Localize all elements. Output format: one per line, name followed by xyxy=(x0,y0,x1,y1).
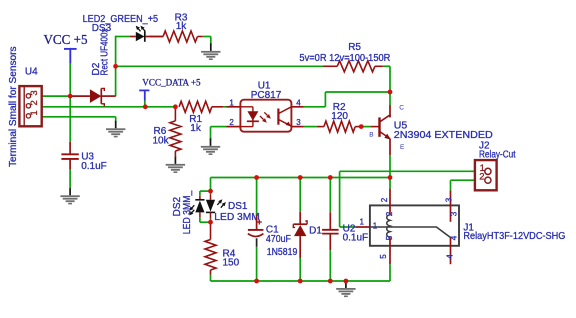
junction node U2 top xyxy=(328,175,333,180)
svg-text:LED 3MM_: LED 3MM_ xyxy=(182,190,193,234)
junction node R2 base xyxy=(359,124,364,129)
svg-text:5: 5 xyxy=(385,235,394,240)
wire rail corner to LED pair xyxy=(210,178,212,192)
optocoupler U1 PC817 xyxy=(227,100,304,132)
svg-text:2: 2 xyxy=(385,211,394,216)
wire row B: U4 pin2 to R1 xyxy=(42,106,177,108)
junction node rail ground xyxy=(344,279,349,284)
wire J2 pin2 to relay pin3 xyxy=(451,179,475,181)
svg-text:4: 4 xyxy=(296,99,301,108)
svg-text:4: 4 xyxy=(445,254,454,259)
wire D1 top xyxy=(299,178,301,212)
svg-text:VCC_DATA +5: VCC_DATA +5 xyxy=(142,77,200,88)
wire U4 pin3 to VCC node xyxy=(42,95,70,97)
svg-text:PC817: PC817 xyxy=(251,90,282,101)
resistor R4 xyxy=(205,222,216,274)
resistor R1 xyxy=(179,101,223,112)
svg-text:D1: D1 xyxy=(309,225,322,236)
svg-text:R5: R5 xyxy=(348,42,361,53)
diode D1 1N5819 xyxy=(293,212,307,258)
wire R3 to ground xyxy=(203,36,211,38)
svg-text:5v=0R 12v=100-150R: 5v=0R 12v=100-150R xyxy=(299,53,390,64)
wire R5 right corner xyxy=(383,65,390,67)
svg-text:RelayHT3F-12VDC-SHG: RelayHT3F-12VDC-SHG xyxy=(463,231,565,242)
svg-text:LED2_GREEN_+5: LED2_GREEN_+5 xyxy=(83,14,159,25)
svg-text:1: 1 xyxy=(29,110,40,115)
resistor R6 xyxy=(170,107,181,157)
svg-text:1k: 1k xyxy=(176,21,188,32)
junction node D1 top xyxy=(298,175,303,180)
wire U5 emitter down to rail xyxy=(389,155,391,177)
wire C1 bottom xyxy=(256,247,258,281)
power symbol VCC +5 xyxy=(44,33,88,64)
wire DS3 to R3 xyxy=(151,36,164,38)
junction node D1 bottom xyxy=(298,279,303,284)
svg-text:Relay-Cut: Relay-Cut xyxy=(479,150,516,161)
wire main +5 rail to R5 xyxy=(116,65,323,67)
svg-text:1k: 1k xyxy=(190,123,202,134)
junction node U2 bottom xyxy=(328,279,333,284)
svg-text:2: 2 xyxy=(229,118,234,127)
svg-text:1: 1 xyxy=(373,222,378,231)
wire top rail of relay section xyxy=(211,177,391,179)
relay J1 xyxy=(355,189,459,265)
wire LED pair right branch xyxy=(210,191,212,194)
wire D2 cathode riser xyxy=(115,36,117,97)
wire relay pin5 to rail xyxy=(389,264,391,281)
svg-text:0.1uF: 0.1uF xyxy=(343,232,369,243)
wire bottom ground rail xyxy=(211,280,391,282)
capacitor U3 xyxy=(61,142,78,188)
wire C1 top xyxy=(256,178,258,215)
svg-text:5: 5 xyxy=(379,254,388,259)
capacitor C1 470uF xyxy=(248,215,264,247)
svg-text:DS1: DS1 xyxy=(228,201,248,212)
junction node VCC/pin3/D2 xyxy=(68,94,73,99)
junction node C1 top xyxy=(254,175,259,180)
wire J2 pin1 to relay common xyxy=(340,170,475,172)
wire VCC_DATA stem xyxy=(144,101,146,107)
svg-text:2: 2 xyxy=(380,197,389,202)
svg-text:1: 1 xyxy=(360,218,365,227)
svg-text:1N5819: 1N5819 xyxy=(267,247,298,258)
svg-text:3: 3 xyxy=(29,90,40,95)
resistor R2 xyxy=(317,121,360,132)
ground at R3 xyxy=(201,43,220,60)
capacitor U2 xyxy=(322,212,339,250)
ground at U4 pin1 xyxy=(106,121,125,138)
junction node D2 out rail xyxy=(113,64,118,69)
svg-text:2N3904 EXTENDED: 2N3904 EXTENDED xyxy=(394,129,493,141)
svg-text:LED 3MM: LED 3MM xyxy=(214,212,259,223)
svg-text:10k: 10k xyxy=(153,135,170,146)
svg-text:VCC +5: VCC +5 xyxy=(44,33,88,48)
svg-text:2: 2 xyxy=(29,100,40,105)
junction node LED bottom xyxy=(208,220,213,225)
junction node C1 bottom xyxy=(254,279,259,284)
wire U1 pin4 to collector node xyxy=(304,106,326,108)
svg-text:0.1uF: 0.1uF xyxy=(81,161,107,172)
wire R1 to U1 pin1 xyxy=(223,106,227,108)
wire R2 to U5 base xyxy=(363,126,371,128)
svg-text:150: 150 xyxy=(223,258,240,269)
wire VCC vertical to U3 xyxy=(69,64,71,142)
ground at R6 xyxy=(166,156,185,173)
wire U2 top xyxy=(329,178,331,213)
wire R4 to bottom rail xyxy=(210,275,212,282)
ground at U3 xyxy=(60,188,79,205)
svg-text:3: 3 xyxy=(444,197,453,202)
transistor U5 2N3904 xyxy=(371,105,391,155)
junction node LED top xyxy=(208,189,213,194)
wire D1 bottom xyxy=(299,258,301,281)
svg-text:Rect UF400x: Rect UF400x xyxy=(100,29,111,76)
svg-text:U4: U4 xyxy=(25,67,38,78)
svg-text:Terminal Small for Sensors: Terminal Small for Sensors xyxy=(8,46,19,167)
wire U4 pin1 to ground xyxy=(42,116,116,118)
resistor R3 xyxy=(150,31,203,42)
wire LED pair left branch xyxy=(200,190,211,192)
wire emitter node to relay pin2 xyxy=(389,178,391,189)
resistor R5 xyxy=(323,61,383,72)
svg-text:3: 3 xyxy=(449,211,458,216)
svg-text:4: 4 xyxy=(449,235,458,240)
power symbol VCC_DATA +5 xyxy=(139,77,200,100)
svg-text:1: 1 xyxy=(229,99,234,108)
junction node collector/R5 xyxy=(388,90,393,95)
LED DS3 xyxy=(130,26,151,42)
LED DS1 xyxy=(206,194,226,218)
ground at bottom rail xyxy=(336,281,355,298)
wire U1 pin2 to ground xyxy=(211,126,227,128)
svg-text:E: E xyxy=(400,144,405,151)
wire U2 bottom xyxy=(329,250,331,281)
svg-text:120: 120 xyxy=(331,111,348,122)
connector U4 Terminal Small for Sensors xyxy=(19,86,41,126)
diode D2 Rect UF400x xyxy=(73,88,116,106)
connector J2 Relay-Cut xyxy=(475,160,497,190)
ground at U1 pin2 xyxy=(201,138,220,155)
svg-text:470uF: 470uF xyxy=(266,234,291,245)
wire LED loop top left xyxy=(116,36,130,38)
LED DS2 xyxy=(189,196,204,217)
wire collector node down xyxy=(389,92,391,105)
svg-text:2: 2 xyxy=(479,172,484,183)
junction node emitter rail xyxy=(388,175,393,180)
svg-text:C: C xyxy=(399,104,404,111)
junction node R6 tap xyxy=(173,104,178,109)
svg-text:3: 3 xyxy=(296,118,301,127)
svg-text:B: B xyxy=(369,131,373,138)
wire U1 pin3 to R2 xyxy=(304,126,317,128)
junction node VCC_DATA row xyxy=(143,104,148,109)
